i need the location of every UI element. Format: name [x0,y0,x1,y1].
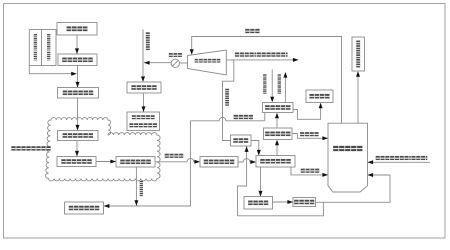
wire 污泥破碎装置→污泥热干化机 [238,159,256,162]
box 减湿器 [231,135,252,146]
box 无热干化等厂内用电设备 [127,112,160,131]
label 不凝尾气 [300,132,319,136]
arrow 调理 junction [71,72,77,76]
arrow 燃料 into 焚烧炉 [368,160,374,164]
arrow 发电机 output [144,61,150,65]
wire 湿污泥破壁泵→污泥布料装置 [76,141,78,157]
box 凝结水箱 [244,197,273,210]
arrow into 凝结水泵 [287,200,293,204]
box 尾气冷凝器 [263,103,294,113]
arrow into 湿污泥储存仓 [76,82,80,88]
wire branch→减湿器 [238,147,324,216]
turbine T1 背压式汽轮机 [188,50,227,75]
label 高热值燃料补充(启动时) [376,156,428,160]
arrow into 深度压滤装置 [110,160,116,164]
label 冷凝废水 [234,115,253,119]
wire 湿污泥储存仓→湿污泥破壁泵 [77,98,79,130]
label 中间污泥 [165,154,184,158]
wire 冷凝废水 vertical [104,121,190,206]
arrow into 污泥热干化机 top [257,150,261,156]
label 半干污泥 [301,169,320,173]
wire 冷凝废水 horizontal [190,117,264,120]
arrow into 厂用变压器 [141,76,145,82]
box 药剂调理(备用) [42,30,57,66]
arrow 压滤废水 junction [134,200,138,206]
wire 冷却水供水 [271,69,273,97]
wire 污泥热干化机→凝结水箱 [260,167,262,196]
wire 烟气→烟气净化系统 [357,77,359,124]
wire 减湿器→污泥热干化机 [251,141,259,156]
box 污泥布料装置 [57,157,96,167]
box 大棚调理(备用) [29,30,41,66]
label 主蒸汽 [245,29,259,33]
box 尾气除尘器 [264,128,293,140]
wire 凝结水箱→凝结水泵 [273,201,293,203]
wire 不凝尾气→焚烧炉 [292,134,328,139]
arrow into 污泥热干化机 [250,160,256,164]
arrow into 除臭设施 [319,103,323,109]
label 压滤废水 (vertical) [140,181,143,196]
box 湿污泥接收仓 [58,54,97,66]
box 湿污泥破壁泵 [58,131,99,141]
wire 主蒸汽 line [192,37,342,124]
label 外供蒸汽(如有富裕蒸汽) [235,53,288,57]
box 厂用变压器 [127,82,161,93]
arrow into 湿污泥接收仓 [75,48,79,54]
wire 厂用变压器→厂内用电设备 [143,93,145,112]
label 冷却水供水 (vertical) [263,74,266,93]
wire 饱和蒸汽 branch→减湿器 [223,60,234,141]
label 污泥无热干化装置 [11,146,50,150]
wire 厂外来电 [142,30,144,77]
wire 半干污泥→焚烧炉 [291,167,328,175]
arrow into 烟气净化系统 [356,71,360,77]
arrow into 减湿器 bottom [245,146,249,152]
arrow 半干污泥 into 焚烧炉 [322,173,328,177]
box 除臭设施 [306,90,333,103]
box 污泥热干化机 [256,156,295,168]
label 发电机 [169,53,182,57]
arrow return into 焚烧炉 [368,173,374,177]
box 湿污泥储存仓 [58,88,99,99]
wire 尾气冷凝器 drop [264,113,266,121]
arrow 主蒸汽 into turbine [190,49,194,55]
label 饱和蒸汽 (vertical) [225,89,229,106]
wire 尾气冷凝器→除臭设施 [293,108,321,119]
label 厂外来电 (vertical) [146,32,150,50]
box 烟气净化系统 (vertical) [352,37,365,71]
wire 发电机→电网母线 [144,62,171,64]
arrow into 厂内用电设备 [142,106,146,112]
wire 污泥布料装置→深度压滤装置 [96,161,116,163]
arrow 外供蒸汽 [293,58,299,62]
wire 中间污泥 深度压滤装置→污泥破碎装置 [155,158,200,161]
wire 尾气除尘器→尾气冷凝器 [276,119,278,129]
arrow into 尾气除尘器 [275,140,279,146]
wire 调理装置→主线 [29,66,75,74]
arrow into 尾气冷凝器 [275,113,279,119]
wire 高热值燃料补充 [368,161,430,163]
wire 入厂污泥→湿污泥接收仓 [76,35,78,54]
arrow into 废水处理设施 [104,204,110,208]
box 凝结水泵 [293,198,316,207]
wire 压滤废水 down [135,167,137,205]
wire 外供蒸汽 [226,59,298,61]
arrow 冷却水供水 into 冷凝器 [270,97,274,103]
incinerator 污泥焚烧炉 [328,123,368,192]
wire 发电机—汽轮机轴 [180,62,188,64]
arrow into 污泥破碎装置 [194,160,200,164]
box 污泥破碎装置 [200,157,238,168]
wire 凝结水泵→焚烧炉 return [316,175,391,202]
box 深度压滤装置 [116,157,155,168]
arrow 不凝尾气 into 焚烧炉 [322,136,328,140]
box 废水处理设施 [65,202,104,214]
label 冷却水回水 (vertical) [278,74,281,93]
wire 污泥热干化机→尾气除尘器 [276,146,278,156]
arrow 冷却水回水 up [283,72,287,78]
arrow into 湿污泥破壁泵 [76,125,80,131]
cloud boundary: heatless drying unit 污泥无热干化装置 [46,118,161,181]
box 入厂污泥 [57,23,97,36]
arrow into 凝结水箱 [259,191,263,197]
generator G1 发电机 circle [171,59,179,67]
wire 湿污泥接收仓→湿污泥储存仓 [77,66,79,88]
wire 冷却水回水 [284,77,286,103]
arrow into 污泥布料装置 [75,151,79,157]
